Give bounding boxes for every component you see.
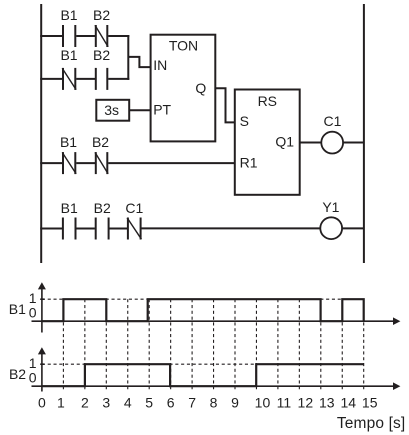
B1 signal waveform: [42, 299, 364, 321]
svg-text:IN: IN: [153, 57, 167, 73]
timing grid dashed verticals t=1..15: [63, 299, 363, 391]
svg-text:12: 12: [298, 394, 314, 410]
svg-text:C1: C1: [324, 113, 342, 129]
svg-text:4: 4: [124, 394, 132, 410]
svg-text:B2: B2: [93, 7, 110, 23]
svg-text:Q1: Q1: [275, 133, 294, 149]
svg-text:S: S: [240, 113, 249, 129]
svg-text:6: 6: [167, 394, 175, 410]
svg-text:PT: PT: [153, 102, 171, 118]
timer function block TON: [151, 35, 216, 142]
svg-text:10: 10: [255, 394, 271, 410]
svg-text:B1: B1: [60, 134, 77, 150]
svg-text:TON: TON: [169, 38, 198, 54]
svg-text:Y1: Y1: [322, 199, 339, 215]
wire Y1 coil to rail: [341, 227, 364, 229]
svg-text:B1: B1: [61, 200, 78, 216]
wire rung2 B2 to junction: [108, 78, 129, 80]
svg-text:5: 5: [145, 394, 153, 410]
svg-text:B1: B1: [9, 301, 26, 317]
B1 level-1 tick: [40, 298, 44, 300]
B1 time axis: [32, 320, 395, 322]
svg-text:C1: C1: [125, 200, 143, 216]
wire rung1 B1 to B2: [76, 35, 95, 37]
svg-text:11: 11: [277, 394, 292, 410]
contact B2 NO (rung 4): [96, 218, 109, 240]
svg-text:3s: 3s: [104, 102, 119, 118]
B2 signal waveform: [42, 364, 364, 386]
svg-text:B2: B2: [9, 366, 26, 382]
svg-text:1: 1: [57, 394, 65, 410]
wire Q1 to C1 coil: [300, 142, 322, 144]
right power rail: [363, 4, 365, 263]
svg-text:B1: B1: [60, 47, 77, 63]
wire junction vertical rung1-rung2: [127, 35, 129, 80]
B2 value axis arrow head: [38, 347, 46, 354]
wire rung2 rail to B1: [40, 78, 62, 80]
svg-text:7: 7: [188, 394, 196, 410]
left power rail: [40, 4, 42, 263]
svg-text:2: 2: [81, 394, 89, 410]
B2 level-1 dashed line: [42, 363, 364, 365]
svg-text:9: 9: [231, 394, 239, 410]
latch function block RS: [235, 90, 300, 195]
wire rung1 rail to B1: [40, 35, 62, 37]
wire Q to S: [215, 88, 235, 122]
contact B1 NC (rung 3): [62, 152, 76, 174]
svg-text:0: 0: [29, 304, 37, 320]
svg-text:B2: B2: [92, 134, 109, 150]
svg-text:RS: RS: [258, 93, 277, 109]
contact B2 NO (rung 2): [96, 68, 108, 90]
svg-text:3: 3: [102, 394, 110, 410]
svg-text:14: 14: [340, 394, 356, 410]
svg-text:Tempo [s]: Tempo [s]: [337, 415, 406, 432]
contact B1 NO (rung 4): [63, 218, 76, 240]
svg-text:0: 0: [29, 369, 37, 385]
svg-text:15: 15: [362, 394, 378, 410]
contact B1 NC (rung 2): [62, 68, 76, 90]
svg-text:0: 0: [38, 394, 46, 410]
svg-text:B2: B2: [93, 47, 110, 63]
svg-text:R1: R1: [240, 155, 258, 171]
wire rung4 B1 to B2: [76, 228, 95, 230]
wire rung2 B1 to B2: [76, 78, 95, 80]
wire rung4 B2 to C1: [110, 228, 128, 230]
svg-text:B2: B2: [94, 200, 111, 216]
B2 level-1 tick: [40, 363, 44, 365]
wire rung1 B2 to corner: [108, 35, 129, 37]
B1 level-1 dashed line: [42, 298, 364, 300]
contact B2 NC (rung 3): [95, 152, 108, 174]
wire rung3 B2 to R1: [108, 162, 235, 164]
contact B1 NO (rung 1): [63, 25, 75, 47]
B1 axis arrow head: [393, 317, 400, 325]
B2 time axis: [32, 385, 395, 387]
wire rung3 rail to B1: [40, 162, 62, 164]
svg-text:8: 8: [210, 394, 218, 410]
B1 value axis: [41, 289, 43, 333]
svg-text:Q: Q: [195, 80, 206, 96]
time axis tick labels 0-15: [38, 394, 378, 410]
wire rung4 C1 to Y1 coil: [142, 227, 322, 229]
svg-text:13: 13: [319, 394, 335, 410]
B2 axis arrow head: [393, 382, 400, 390]
wire C1 coil to rail: [342, 142, 364, 144]
contact B2 NC (rung 1): [95, 25, 108, 47]
contact C1 NC (rung 4): [127, 218, 141, 240]
wire jog to IN: [128, 57, 150, 67]
B1 value axis arrow head: [38, 282, 46, 289]
wire rung3 B1 to B2: [76, 162, 95, 164]
time value box 3s: [96, 100, 129, 121]
svg-text:B1: B1: [60, 7, 77, 23]
coil C1: [321, 132, 343, 154]
coil Y1: [320, 217, 342, 239]
wire 3s to PT: [129, 109, 150, 111]
wire rung4 rail to B1: [40, 228, 62, 230]
B2 value axis: [41, 354, 43, 392]
